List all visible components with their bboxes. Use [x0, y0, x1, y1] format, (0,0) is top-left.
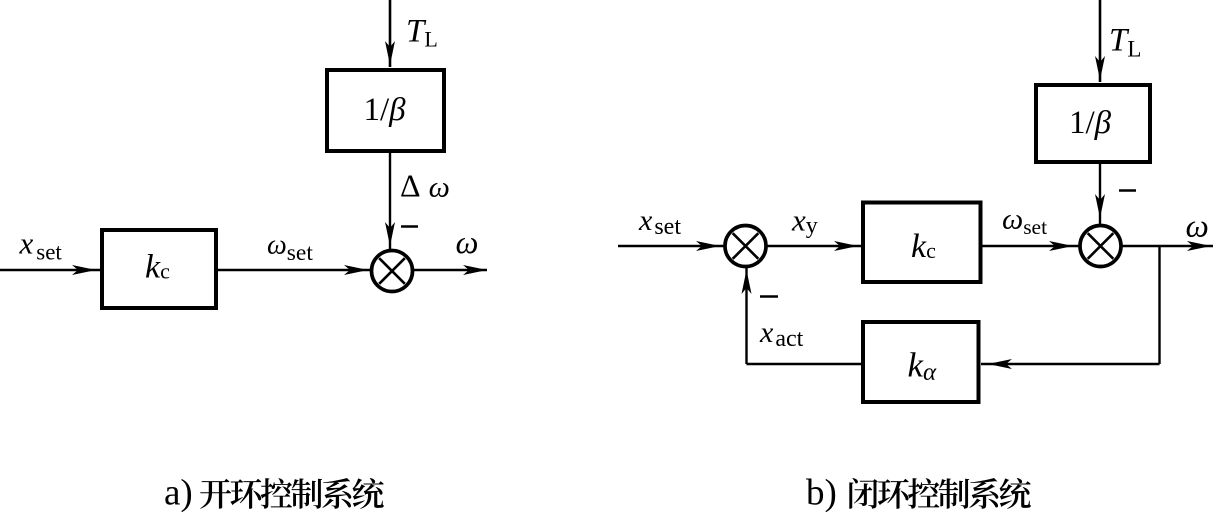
svg-text:kc: kc	[145, 249, 170, 286]
svg-text:xset: xset	[638, 204, 681, 240]
svg-text:1/β: 1/β	[364, 92, 407, 128]
svg-text:ω: ω	[456, 225, 479, 261]
svg-text:ω: ω	[1186, 209, 1209, 245]
svg-text:kc: kc	[911, 228, 936, 265]
svg-text:xy: xy	[791, 203, 818, 240]
svg-text:xact: xact	[759, 316, 804, 352]
svg-text:b): b)	[806, 473, 837, 512]
svg-text:TL: TL	[406, 14, 438, 52]
svg-text:ωset: ωset	[267, 230, 313, 267]
svg-text:kα: kα	[908, 346, 938, 387]
svg-text:Δω: Δω	[400, 168, 450, 204]
svg-text:TL: TL	[1109, 23, 1141, 62]
svg-text:a): a)	[164, 473, 193, 512]
svg-text:xset: xset	[19, 226, 63, 265]
svg-text:ωset: ωset	[1002, 203, 1047, 240]
svg-text:1/β: 1/β	[1069, 105, 1112, 141]
